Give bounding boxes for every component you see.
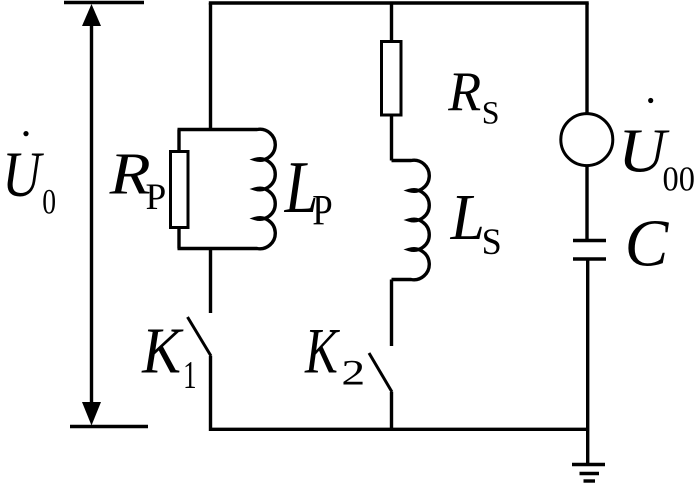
svg-text:00: 00 <box>663 161 695 199</box>
svg-text:S: S <box>482 95 500 132</box>
svg-text:P: P <box>312 186 332 234</box>
svg-text:S: S <box>482 221 502 263</box>
svg-text:2: 2 <box>341 353 365 393</box>
svg-text:R: R <box>447 60 481 122</box>
svg-text:U: U <box>2 138 44 210</box>
svg-text:R: R <box>109 140 151 207</box>
svg-text:L: L <box>450 180 485 253</box>
svg-text:C: C <box>625 207 670 281</box>
svg-text:K: K <box>141 316 184 388</box>
svg-text:K: K <box>304 316 340 387</box>
svg-text:0: 0 <box>42 181 56 222</box>
svg-text:P: P <box>146 177 167 218</box>
svg-text:1: 1 <box>183 354 196 397</box>
